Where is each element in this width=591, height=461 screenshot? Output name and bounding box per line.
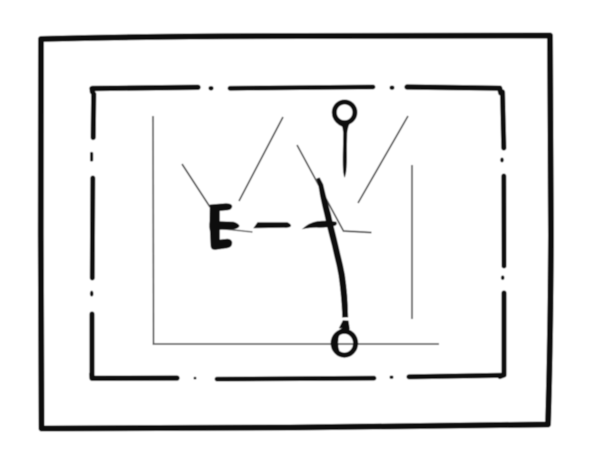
outer frame bbox=[41, 36, 551, 429]
switch lever curve bbox=[316, 177, 348, 317]
dashdot frame right: long dash bbox=[501, 176, 506, 266]
dashdot frame left: dot 2 bbox=[90, 291, 94, 297]
dashdot frame right: dot 2 bbox=[501, 275, 505, 280]
terminal T1 ring lower-left thickening bbox=[334, 116, 343, 125]
guide diagonal B (gray) bbox=[239, 117, 283, 201]
dashdot frame bottom: long dash bbox=[217, 376, 374, 382]
dashdot frame top: corner + dash bbox=[92, 87, 198, 92]
guide box left vertical (gray) bbox=[152, 116, 155, 344]
dashdot frame bottom: dash to left corner bbox=[92, 374, 177, 378]
dashdot frame left: dash to top corner bbox=[91, 94, 97, 138]
terminal T2 ring left thickening bbox=[336, 329, 348, 353]
dashdot frame left: dot 1 bbox=[90, 154, 93, 161]
dashdot frame top: long dash bbox=[230, 87, 373, 88]
guide switch blade (gray) bbox=[297, 145, 372, 233]
terminal T1 ring bbox=[334, 102, 355, 123]
dashdot frame bottom: dash 1 bbox=[409, 375, 502, 377]
dashdot frame top: dot 1 bbox=[208, 86, 213, 91]
guide box right vertical (gray) bbox=[411, 165, 413, 319]
terminal T2 ring bbox=[333, 331, 355, 355]
guide box bottom horizontal (gray) bbox=[153, 343, 440, 345]
dashdot frame right: dash 1 bbox=[503, 92, 504, 148]
switch lever foot bbox=[339, 320, 350, 328]
dashdot frame right: dash to bottom corner bbox=[500, 293, 504, 377]
dashdot frame right: dot 1 bbox=[500, 158, 504, 163]
terminal T1 tail bbox=[340, 122, 350, 178]
dashdot frame left: dash 3 bbox=[89, 314, 94, 376]
dashdot frame top: dash to right corner bbox=[407, 87, 501, 93]
guide link line (gray) bbox=[220, 229, 253, 233]
link dash 1 bbox=[253, 222, 291, 228]
guide diagonal A (gray) bbox=[182, 164, 210, 207]
link dash 2 tick bbox=[302, 221, 337, 229]
dashdot frame bottom: dot 2 bbox=[194, 377, 197, 380]
dashdot frame left: long dash bbox=[90, 178, 96, 278]
guide diagonal C (gray) bbox=[358, 116, 408, 203]
dashdot frame top: dot 2 bbox=[390, 86, 395, 90]
actuator E symbol bbox=[209, 203, 239, 250]
dashdot frame bottom: dot 1 bbox=[390, 376, 394, 379]
